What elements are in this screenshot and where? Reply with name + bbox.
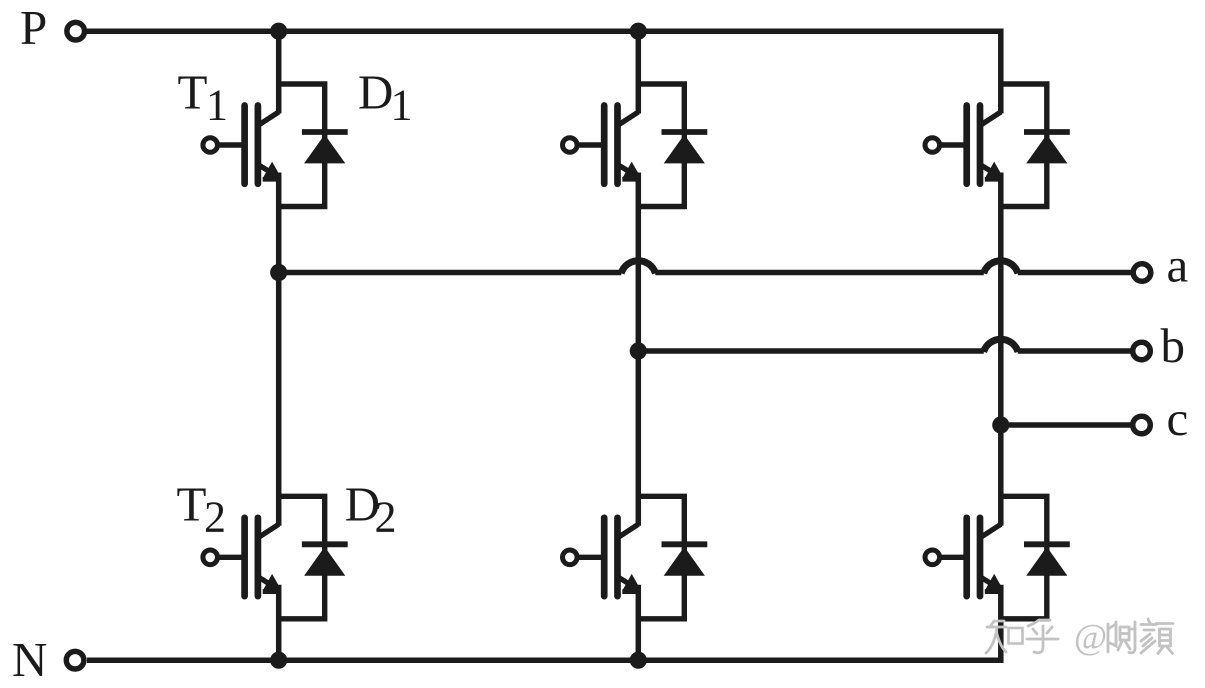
svg-text:2: 2	[375, 493, 397, 542]
svg-text:D: D	[358, 64, 393, 119]
svg-text:T: T	[177, 477, 207, 532]
svg-text:2: 2	[204, 493, 226, 542]
svg-text:T: T	[178, 64, 208, 119]
svg-text:a: a	[1167, 238, 1189, 293]
svg-text:N: N	[12, 632, 47, 687]
svg-text:@: @	[1074, 617, 1107, 657]
svg-text:P: P	[20, 0, 47, 55]
svg-text:b: b	[1161, 318, 1186, 373]
svg-text:c: c	[1167, 391, 1189, 446]
svg-text:1: 1	[391, 81, 413, 130]
svg-text:1: 1	[206, 81, 228, 130]
